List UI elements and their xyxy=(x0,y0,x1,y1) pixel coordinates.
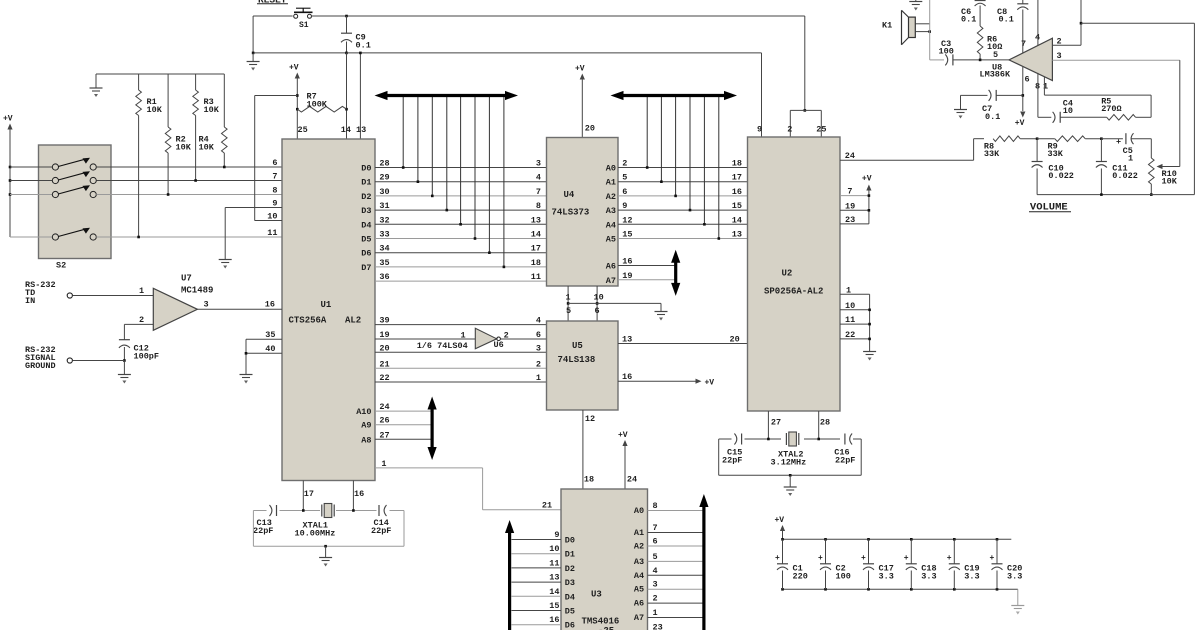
cap bank top rail xyxy=(783,538,1012,540)
svg-text:+: + xyxy=(775,554,780,563)
U5 pin 12 to U3 pin 18 xyxy=(582,410,584,489)
resistor R7 100K xyxy=(297,106,346,112)
ground below S1 xyxy=(252,53,254,62)
svg-text:7: 7 xyxy=(272,172,277,182)
wire S2 row1 to U1 pin 6 xyxy=(96,166,282,168)
svg-text:8: 8 xyxy=(272,186,277,196)
ground rail under S1 xyxy=(253,52,346,54)
svg-text:2: 2 xyxy=(139,315,144,325)
bus stub A4 xyxy=(703,97,705,224)
svg-text:3.3: 3.3 xyxy=(1007,572,1022,582)
svg-text:+V: +V xyxy=(705,379,715,388)
bus arrow data bus xyxy=(384,94,510,97)
capacitor C2 100 xyxy=(824,538,827,541)
capacitor C14 22pF xyxy=(378,505,380,516)
wire to U1 pin 14 xyxy=(346,53,348,139)
svg-text:1/6 74LS04: 1/6 74LS04 xyxy=(417,341,468,351)
svg-text:25: 25 xyxy=(816,125,826,135)
svg-text:2: 2 xyxy=(787,125,792,135)
svg-text:AL2: AL2 xyxy=(345,316,361,326)
wire volume bottom rail xyxy=(1037,194,1194,196)
IC U1 CTS256A-AL2 xyxy=(282,139,375,481)
svg-text:18: 18 xyxy=(531,258,541,268)
wire U1 pin 20 to U5 pin 3 xyxy=(375,351,547,353)
wire resistor top rail xyxy=(96,73,224,75)
svg-text:A2: A2 xyxy=(634,542,644,552)
svg-text:34: 34 xyxy=(379,244,389,254)
wire reset net to U2 xyxy=(804,16,806,110)
bus stub A2 xyxy=(675,97,677,196)
svg-text:U5: U5 xyxy=(572,341,583,351)
bus stub A5 xyxy=(718,97,720,239)
svg-text:GROUND: GROUND xyxy=(25,361,56,371)
svg-text:D5: D5 xyxy=(565,607,575,617)
svg-text:19: 19 xyxy=(379,330,389,340)
svg-text:1: 1 xyxy=(139,286,144,296)
svg-text:11: 11 xyxy=(845,315,855,325)
wire to U1 pin 13 xyxy=(359,53,361,139)
svg-text:A3: A3 xyxy=(634,557,644,567)
capacitor C10 0.022 xyxy=(1036,139,1038,162)
svg-text:A6: A6 xyxy=(634,599,644,609)
svg-text:U2: U2 xyxy=(782,269,793,279)
svg-text:10.00MHz: 10.00MHz xyxy=(295,529,336,539)
svg-text:D1: D1 xyxy=(361,178,371,188)
svg-text:16: 16 xyxy=(265,300,275,310)
svg-text:20: 20 xyxy=(585,124,595,134)
svg-text:15: 15 xyxy=(622,230,632,240)
ground U1 pins 35 40 xyxy=(245,339,247,374)
svg-text:A7: A7 xyxy=(606,276,616,286)
resistor R8 33K xyxy=(974,138,984,140)
svg-text:0.1: 0.1 xyxy=(985,112,1000,122)
capacitor C13 22pF xyxy=(270,505,272,516)
svg-text:D0: D0 xyxy=(361,164,371,174)
svg-text:20: 20 xyxy=(379,343,389,353)
wire amp pin 3 xyxy=(1052,59,1179,61)
ground U2 logic pins xyxy=(869,294,871,351)
svg-text:16: 16 xyxy=(549,615,559,625)
ground C12 xyxy=(123,361,125,375)
wire U3 pin 9 D0 xyxy=(512,539,562,541)
svg-text:33K: 33K xyxy=(1048,149,1064,159)
svg-text:A5: A5 xyxy=(606,235,616,245)
svg-text:16: 16 xyxy=(622,372,632,382)
svg-text:3.3: 3.3 xyxy=(879,572,894,582)
wire U3 pin 4 A4 xyxy=(648,574,704,576)
wire U3 pin 14 D4 xyxy=(512,595,562,597)
svg-text:+V: +V xyxy=(775,516,785,525)
resistor R5 270 ohm xyxy=(1107,115,1136,121)
svg-text:U7: U7 xyxy=(181,274,192,284)
potentiometer R10 10K xyxy=(1150,139,1152,158)
svg-text:36: 36 xyxy=(379,272,389,282)
svg-text:3: 3 xyxy=(204,300,209,310)
svg-text:1: 1 xyxy=(653,608,658,618)
svg-text:D2: D2 xyxy=(361,192,371,202)
wire U1 pin 1 to U3 pin 21 xyxy=(375,467,483,469)
wire data bus D2 U1 pin 30 to U4 pin 7 xyxy=(375,195,547,197)
svg-text:0.022: 0.022 xyxy=(1112,171,1138,181)
svg-text:1: 1 xyxy=(536,373,541,383)
svg-text:11: 11 xyxy=(531,272,541,282)
svg-text:8: 8 xyxy=(536,201,541,211)
wire U4 pin 19 A7 xyxy=(618,279,676,281)
resistor R6 10 ohm xyxy=(979,6,981,27)
svg-text:+V: +V xyxy=(289,64,299,73)
IC U2 SP0256A-AL2 xyxy=(748,137,841,411)
svg-text:33K: 33K xyxy=(984,149,1000,159)
wire U5 pin 13 to U2 pin 20 xyxy=(618,343,748,345)
svg-text:27: 27 xyxy=(379,430,389,440)
capacitor C15 22pF xyxy=(734,434,736,445)
svg-text:1: 1 xyxy=(846,285,851,295)
ground C7 xyxy=(960,95,962,109)
amplifier U8 LM386K xyxy=(1009,38,1052,80)
wire U3 pin 11 D2 xyxy=(512,567,562,569)
svg-text:31: 31 xyxy=(379,201,389,211)
svg-text:10K: 10K xyxy=(199,143,215,153)
wire amp pin 8 xyxy=(1037,73,1039,117)
capacitor C18 3.3 xyxy=(910,538,913,541)
wire U2 pin 23 xyxy=(840,223,869,225)
svg-text:3: 3 xyxy=(536,159,541,169)
inverter U6 1/6 74LS04 xyxy=(475,328,496,349)
svg-text:3: 3 xyxy=(536,343,541,353)
wire amp pin 6 to +V xyxy=(1022,67,1024,111)
IC U3 TMS4016 xyxy=(561,489,648,630)
wire data bus D4 U1 pin 32 to U4 pin 13 xyxy=(375,223,547,225)
wire switch rows to +V rail xyxy=(9,166,12,169)
wire address A4 U4 pin 12 to U2 pin 14 xyxy=(618,223,748,225)
svg-text:74LS138: 74LS138 xyxy=(558,355,596,365)
switch lever S2-2 xyxy=(58,172,86,180)
wire U3 pin 7 A1 xyxy=(648,532,704,534)
ground crystal tank 2 xyxy=(789,475,791,487)
capacitor C20 3.3 xyxy=(996,538,999,541)
svg-text:13: 13 xyxy=(549,573,559,583)
switch lever S2-4 xyxy=(58,229,86,237)
U1 pin 16 xtal xyxy=(352,481,354,511)
svg-text:13: 13 xyxy=(622,334,632,344)
svg-text:100: 100 xyxy=(939,47,954,57)
wire S2 row 2 left xyxy=(10,180,52,182)
cap bank bottom rail xyxy=(783,588,1018,590)
svg-text:+V: +V xyxy=(862,175,872,184)
switch S2 xyxy=(39,145,112,259)
svg-text:+: + xyxy=(818,554,823,563)
svg-text:6: 6 xyxy=(272,158,277,168)
crystal XTAL2 3.12MHz xyxy=(785,433,787,445)
svg-text:11: 11 xyxy=(549,558,559,568)
resistor R4 10K xyxy=(223,74,225,127)
svg-text:3.3: 3.3 xyxy=(964,572,979,582)
svg-text:21: 21 xyxy=(379,359,389,369)
svg-text:D1: D1 xyxy=(565,550,575,560)
svg-text:24: 24 xyxy=(627,475,637,485)
wire U3 pin 13 D3 xyxy=(512,581,562,583)
svg-text:A8: A8 xyxy=(361,435,371,445)
wire U1 pin 36 strobe to U4 pin 11 xyxy=(375,280,547,282)
wire address A5 U4 pin 15 to U2 pin 13 xyxy=(618,238,748,240)
svg-text:+V: +V xyxy=(1015,119,1025,128)
svg-text:D4: D4 xyxy=(361,220,371,230)
svg-text:14: 14 xyxy=(341,125,351,135)
wire speaker terminals xyxy=(915,23,929,25)
bus stub D1 xyxy=(417,97,419,182)
crystal tank 2 rail xyxy=(719,438,732,440)
crystal tank 2 box xyxy=(718,439,720,475)
svg-text:19: 19 xyxy=(845,201,855,211)
U2 pin 9 xyxy=(761,53,763,137)
svg-text:39: 39 xyxy=(379,316,389,326)
svg-text:4: 4 xyxy=(536,316,541,326)
resistor R1 10K xyxy=(138,74,140,90)
wire U7 output to U1 pin 16 xyxy=(197,308,282,310)
wire U3 pin 3 A5 xyxy=(648,588,704,590)
svg-text:6: 6 xyxy=(595,306,600,316)
wire U1 pin 39 to U5 pin 4 xyxy=(375,324,547,326)
svg-text:10: 10 xyxy=(845,301,855,311)
svg-text:D3: D3 xyxy=(361,206,371,216)
svg-text:1: 1 xyxy=(461,331,466,341)
svg-text:SP0256A-AL2: SP0256A-AL2 xyxy=(764,287,823,297)
svg-text:29: 29 xyxy=(379,173,389,183)
wire U1 pin 9 to ground xyxy=(225,207,282,209)
wire address A1 U4 pin 5 to U2 pin 17 xyxy=(618,181,748,183)
svg-text:3: 3 xyxy=(1057,51,1062,61)
IC U4 74LS373 xyxy=(547,138,619,287)
svg-text:9: 9 xyxy=(554,530,559,540)
wire U3 pin 15 D5 xyxy=(512,610,562,612)
svg-text:220: 220 xyxy=(793,572,808,582)
svg-text:U6: U6 xyxy=(494,340,504,350)
capacitor C7 0.1 xyxy=(961,94,988,96)
ground crystal tank xyxy=(325,546,327,557)
svg-text:22pF: 22pF xyxy=(835,456,855,466)
svg-text:12: 12 xyxy=(585,414,595,424)
wire U1 pin 26 A9 xyxy=(375,424,432,426)
svg-text:19: 19 xyxy=(622,271,632,281)
svg-text:8: 8 xyxy=(653,501,658,511)
capacitor C19 3.3 xyxy=(953,538,956,541)
bus arrow A6 A7 xyxy=(674,261,677,285)
svg-text:17: 17 xyxy=(531,244,541,254)
U2 pin 27 xyxy=(767,411,769,439)
svg-text:17: 17 xyxy=(304,489,314,499)
svg-text:5: 5 xyxy=(622,173,627,183)
svg-text:4: 4 xyxy=(536,173,541,183)
svg-text:+V: +V xyxy=(618,431,628,440)
svg-text:D0: D0 xyxy=(565,536,575,546)
svg-text:2: 2 xyxy=(653,594,658,604)
svg-text:+: + xyxy=(990,554,995,563)
wire U3 pin 2 A6 xyxy=(648,602,704,604)
svg-text:30: 30 xyxy=(379,187,389,197)
svg-text:14: 14 xyxy=(531,230,541,240)
svg-text:10: 10 xyxy=(1063,106,1073,116)
wire address A0 U4 pin 2 to U2 pin 18 xyxy=(618,167,748,169)
svg-text:K1: K1 xyxy=(882,21,892,31)
wire U3 pin 6 A2 xyxy=(648,545,704,547)
svg-text:27: 27 xyxy=(771,418,781,428)
svg-text:7: 7 xyxy=(1021,39,1026,49)
capacitor C6 0.1 xyxy=(975,0,986,2)
wire data bus D6 U1 pin 34 to U4 pin 17 xyxy=(375,252,547,254)
svg-text:5: 5 xyxy=(566,306,571,316)
capacitor C17 3.3 xyxy=(867,538,870,541)
wire U2 pin 11 xyxy=(840,323,870,325)
U2 pin 2 xyxy=(789,110,791,137)
svg-text:9: 9 xyxy=(757,125,762,135)
svg-text:21: 21 xyxy=(542,501,552,511)
wire data bus D5 U1 pin 33 to U4 pin 14 xyxy=(375,238,547,240)
resistor R9 33K xyxy=(1036,137,1039,140)
svg-text:12: 12 xyxy=(622,215,632,225)
svg-text:A4: A4 xyxy=(606,220,616,230)
wire signal ground to C12 xyxy=(73,360,125,362)
svg-text:6: 6 xyxy=(653,537,658,547)
wire S2 row 4 left xyxy=(10,236,52,238)
svg-text:D5: D5 xyxy=(361,235,371,245)
wire S1 to reset net xyxy=(311,15,805,17)
svg-text:IN: IN xyxy=(25,296,35,306)
svg-text:15: 15 xyxy=(732,201,742,211)
svg-text:14: 14 xyxy=(549,587,559,597)
pushbutton S1 xyxy=(253,15,293,17)
svg-text:28: 28 xyxy=(820,418,830,428)
U4 pin 10 to U5 pin 6 xyxy=(596,286,598,321)
svg-text:20: 20 xyxy=(730,335,740,345)
wire U2 pin 22 xyxy=(840,338,870,340)
IC U5 74LS138 xyxy=(547,321,619,410)
svg-text:D6: D6 xyxy=(361,249,371,259)
svg-text:3: 3 xyxy=(653,580,658,590)
crystal XTAL1 10.00MHz xyxy=(321,505,323,517)
svg-text:A2: A2 xyxy=(606,192,616,202)
capacitor C9 0.1 xyxy=(346,16,348,33)
svg-text:S1: S1 xyxy=(299,21,309,30)
capacitor C12 100pF xyxy=(123,324,125,339)
svg-text:6: 6 xyxy=(622,187,627,197)
svg-text:0.1: 0.1 xyxy=(961,15,976,25)
svg-text:A0: A0 xyxy=(634,506,644,516)
svg-text:CTS256A: CTS256A xyxy=(289,316,327,326)
svg-text:22: 22 xyxy=(845,330,855,340)
wire S1 left to ground rail xyxy=(252,16,254,53)
svg-text:A3: A3 xyxy=(606,206,616,216)
svg-text:10: 10 xyxy=(549,544,559,554)
svg-text:35: 35 xyxy=(265,330,275,340)
bus stub A3 xyxy=(689,97,691,210)
capacitor C8 0.1 xyxy=(1022,0,1024,4)
wire +V branch to U1 pin 10 xyxy=(255,95,298,97)
wire address A2 U4 pin 6 to U2 pin 16 xyxy=(618,195,748,197)
svg-text:22pF: 22pF xyxy=(722,456,742,466)
svg-text:LM386K: LM386K xyxy=(980,70,1012,80)
svg-text:33: 33 xyxy=(379,230,389,240)
wire amp pin 1 feedback xyxy=(1043,77,1045,95)
resistor R2 10K xyxy=(167,74,169,127)
svg-text:13: 13 xyxy=(531,215,541,225)
svg-text:A4: A4 xyxy=(634,571,644,581)
svg-text:7: 7 xyxy=(653,523,658,533)
wire S2 row2 to U1 pin 7 xyxy=(96,180,282,182)
svg-text:A9: A9 xyxy=(361,421,371,431)
svg-text:23: 23 xyxy=(845,215,855,225)
svg-text:MC1489: MC1489 xyxy=(181,286,213,296)
svg-text:11: 11 xyxy=(267,228,277,238)
svg-text:2: 2 xyxy=(622,159,627,169)
bus stub D3 xyxy=(446,97,448,210)
bus stub D2 xyxy=(431,97,433,196)
svg-text:A0: A0 xyxy=(606,164,616,174)
svg-text:RESET: RESET xyxy=(258,0,287,6)
svg-text:A1: A1 xyxy=(634,528,644,538)
svg-text:-25: -25 xyxy=(598,626,614,630)
svg-text:32: 32 xyxy=(379,215,389,225)
capacitor C3 100 xyxy=(930,59,944,61)
wire C9 rail to U2 pin 9 xyxy=(347,52,762,54)
svg-text:18: 18 xyxy=(584,475,594,485)
wire U3 pin 5 A3 xyxy=(648,560,704,562)
svg-text:2: 2 xyxy=(504,331,509,341)
svg-text:28: 28 xyxy=(379,159,389,169)
wire U2 pin 19 xyxy=(840,209,869,211)
svg-text:22: 22 xyxy=(379,373,389,383)
switch lever S2-1 xyxy=(58,159,86,167)
wire U2 pin 24 audio out xyxy=(840,159,974,161)
wire U1 pin 24 A10 xyxy=(375,410,432,412)
svg-text:14: 14 xyxy=(732,215,742,225)
bus stub A1 xyxy=(660,97,662,182)
wire data bus D1 U1 pin 29 to U4 pin 4 xyxy=(375,181,547,183)
wire volume top xyxy=(973,139,975,161)
svg-text:U4: U4 xyxy=(564,190,575,200)
wire address A3 U4 pin 9 to U2 pin 15 xyxy=(618,209,748,211)
svg-text:A10: A10 xyxy=(356,407,371,417)
svg-text:13: 13 xyxy=(732,230,742,240)
svg-text:24: 24 xyxy=(845,151,855,161)
svg-text:16: 16 xyxy=(732,187,742,197)
svg-text:0.022: 0.022 xyxy=(1048,171,1074,181)
svg-text:0.1: 0.1 xyxy=(356,41,371,51)
U1 pin 17 xyxy=(302,481,304,511)
wire data bus D7 U1 pin 35 to U4 pin 18 xyxy=(375,266,547,268)
svg-text:1: 1 xyxy=(1043,82,1048,92)
svg-text:D4: D4 xyxy=(565,592,575,602)
wire U5 pin 16 to +V xyxy=(618,380,698,382)
svg-text:0.1: 0.1 xyxy=(999,15,1014,25)
svg-text:10K: 10K xyxy=(1162,177,1178,187)
svg-text:+: + xyxy=(947,554,952,563)
buffer U7 MC1489 xyxy=(153,288,197,330)
wire U3 pin 1 A7 xyxy=(648,617,704,619)
svg-text:7: 7 xyxy=(847,187,852,197)
svg-text:10K: 10K xyxy=(204,105,220,115)
svg-text:U1: U1 xyxy=(321,300,332,310)
ground speaker top xyxy=(915,0,917,2)
svg-text:1: 1 xyxy=(566,293,571,303)
svg-text:D6: D6 xyxy=(565,621,575,630)
svg-text:22pF: 22pF xyxy=(371,526,391,536)
svg-text:100: 100 xyxy=(836,572,851,582)
bus arrow address bus xyxy=(620,94,729,97)
svg-text:D7: D7 xyxy=(361,263,371,273)
bus arrow U3 data xyxy=(508,531,511,630)
wire U7 pin 2 xyxy=(124,323,153,325)
switch lever S2-3 xyxy=(58,186,86,194)
